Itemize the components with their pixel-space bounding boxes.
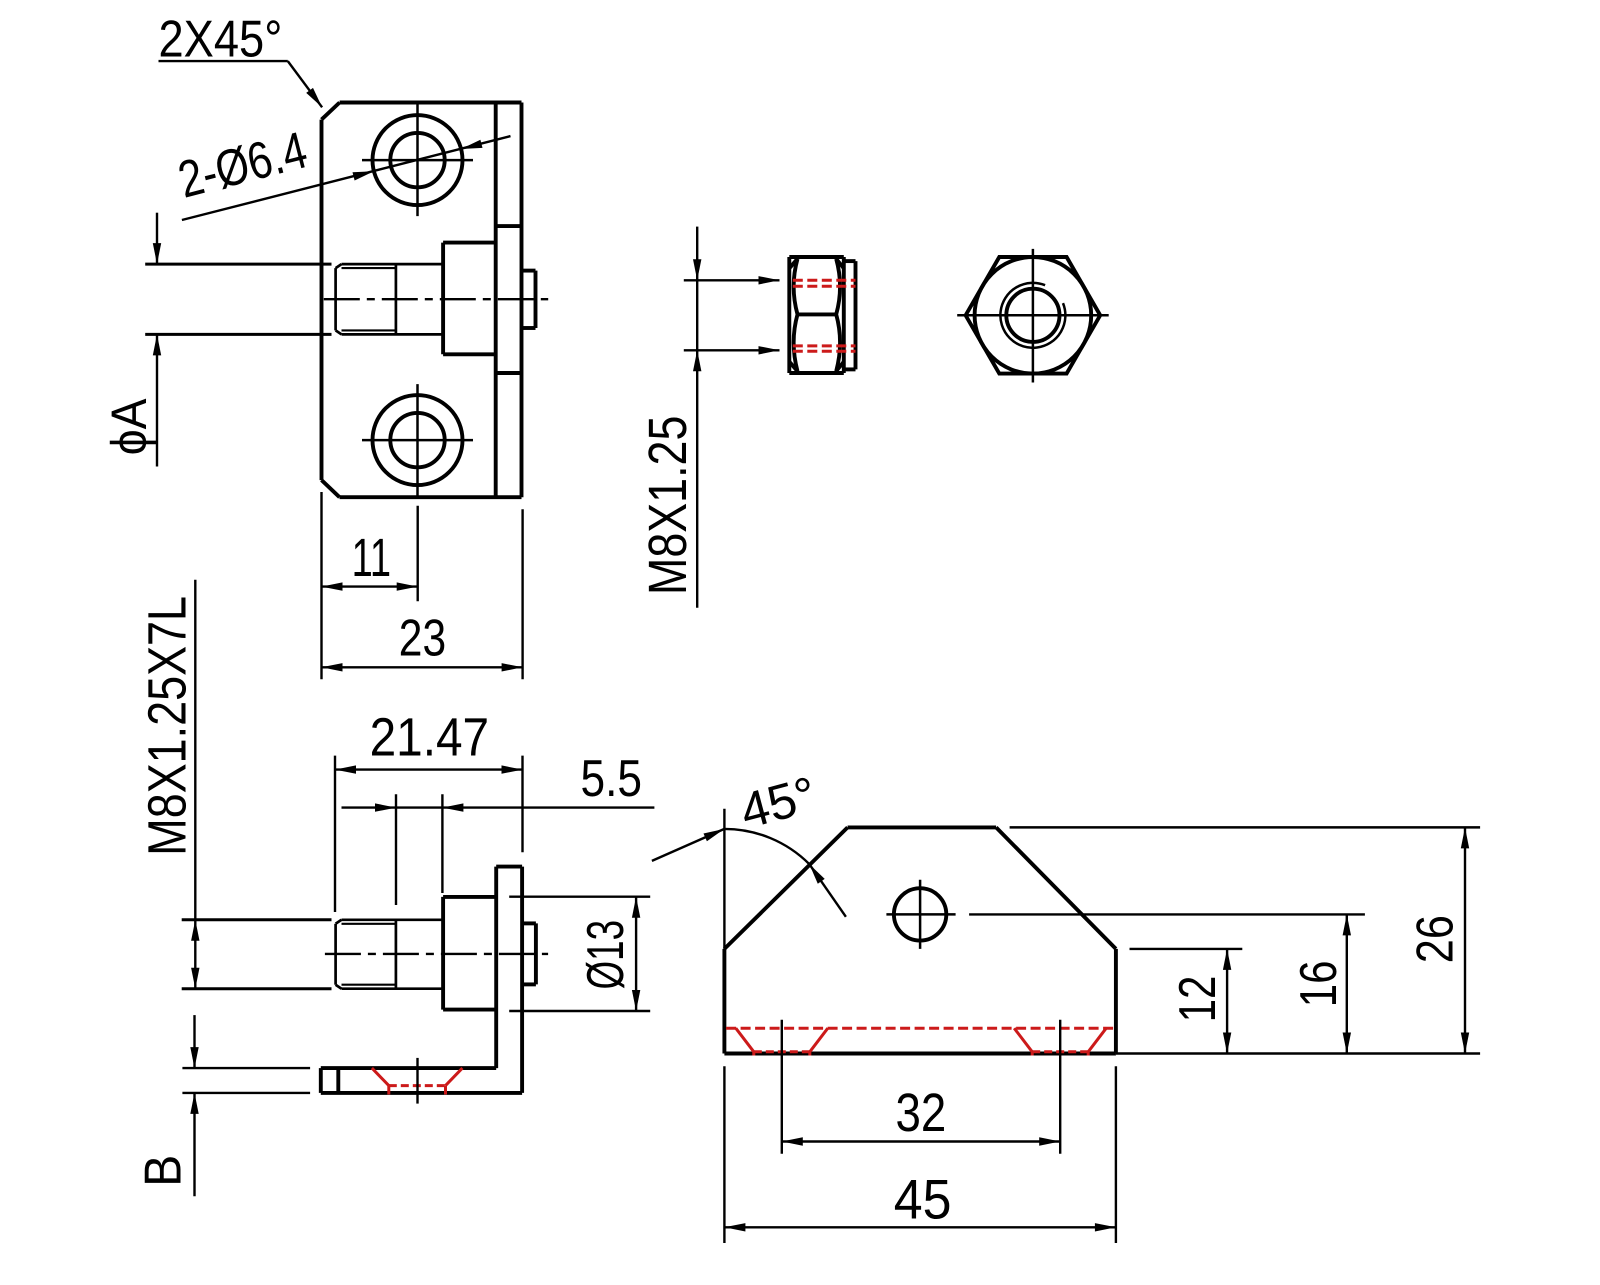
svg-text:45: 45 [894, 1168, 952, 1231]
svg-text:2X45°: 2X45° [159, 10, 283, 68]
svg-text:ϕA: ϕA [101, 398, 157, 455]
svg-text:11: 11 [352, 528, 392, 588]
svg-text:5.5: 5.5 [581, 750, 643, 808]
svg-text:26: 26 [1407, 915, 1465, 963]
svg-text:B: B [135, 1155, 193, 1187]
svg-text:Ø13: Ø13 [577, 920, 635, 990]
svg-text:M8X1.25X7L: M8X1.25X7L [138, 596, 198, 856]
svg-text:32: 32 [896, 1083, 947, 1143]
svg-text:12: 12 [1169, 976, 1227, 1023]
svg-text:23: 23 [399, 609, 446, 667]
svg-text:M8X1.25: M8X1.25 [638, 416, 698, 595]
svg-text:21.47: 21.47 [370, 708, 490, 768]
svg-text:16: 16 [1290, 961, 1348, 1008]
